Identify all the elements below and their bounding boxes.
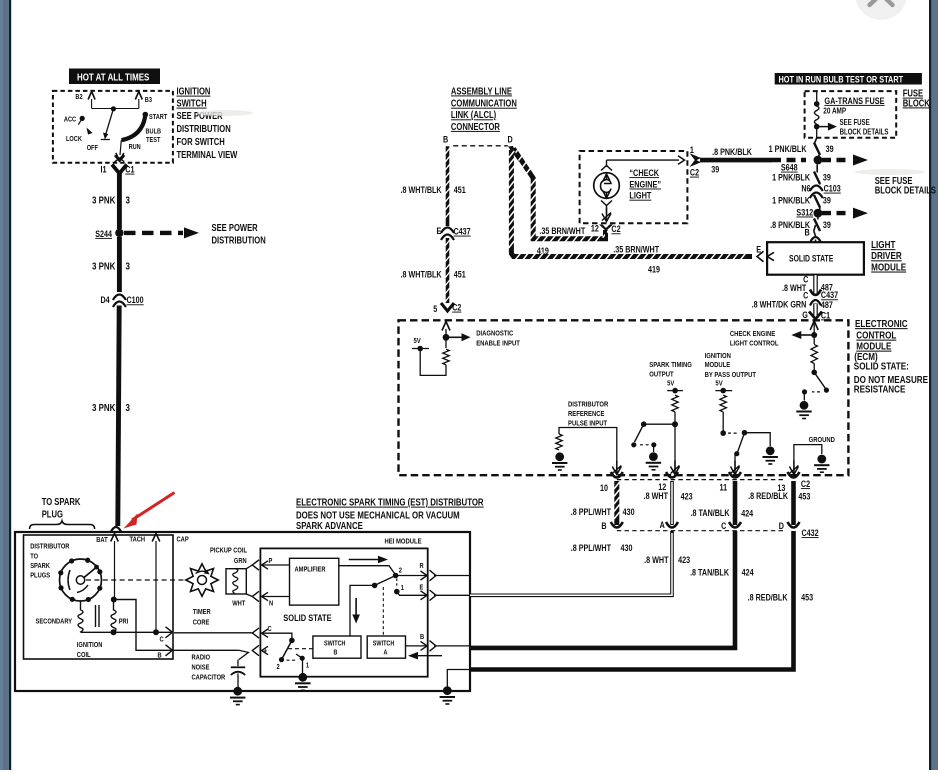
diagnostic enable circuit [442,322,450,331]
ignition coil box [24,535,174,659]
svg-text:BY PASS OUTPUT: BY PASS OUTPUT [705,371,757,379]
svg-text:RADIO: RADIO [192,654,211,662]
splice S244 [115,229,123,237]
svg-text:5V: 5V [667,380,675,388]
node primary top [111,597,117,603]
svg-text:SEE FUSE: SEE FUSE [840,119,870,127]
dashed wire to switch B [288,648,313,650]
svg-text:I1: I1 [101,165,107,175]
pickup coil [226,569,246,594]
svg-text:.8 WHT/DK GRN: .8 WHT/DK GRN [752,300,807,310]
ignition switch box [53,91,173,163]
svg-text:IGNITION: IGNITION [705,352,731,360]
svg-text:D4: D4 [101,295,111,305]
svg-text:1 PNK/BLK: 1 PNK/BLK [772,172,810,182]
svg-text:PLUGS: PLUGS [30,572,50,580]
switch common node [372,583,378,589]
svg-text:PULSE INPUT: PULSE INPUT [568,420,608,428]
header HOT IN RUN BULB TEST OR START [775,73,922,85]
dashed link to switch A [382,587,384,636]
splice S648 [772,158,806,162]
svg-text:MODULE: MODULE [856,341,891,352]
svg-text:B: B [805,227,810,237]
feedback arrow [414,655,442,657]
svg-text:PICKUP COIL: PICKUP COIL [210,547,247,555]
svg-text:C1: C1 [821,310,831,320]
ground radio capacitor [233,687,242,696]
svg-text:C: C [160,636,164,644]
svg-text:3: 3 [126,402,130,413]
see fuse details arrow [817,126,828,128]
svg-text:SWITCH: SWITCH [324,640,346,648]
svg-text:451: 451 [454,185,466,195]
svg-text:ASSEMBLY LINE: ASSEMBLY LINE [451,85,512,96]
see power distribution arrow [124,231,183,235]
smudge artifact [197,110,253,116]
svg-text:39: 39 [711,165,719,175]
svg-text:S312: S312 [796,208,813,218]
svg-text:DISTRIBUTION: DISTRIBUTION [212,235,266,246]
fuse block box [805,91,897,138]
svg-text:ENABLE INPUT: ENABLE INPUT [476,340,520,348]
wire bulb to pin 12 [602,213,611,222]
svg-text:R: R [420,562,424,570]
node primary bottom [111,629,117,635]
HEI module box [260,548,427,676]
svg-text:CHECK ENGINE: CHECK ENGINE [730,330,776,338]
key travel arc [122,115,146,140]
svg-text:SEE POWER: SEE POWER [212,222,259,233]
pickup wire WHT [246,594,252,597]
svg-text:GA-TRANS FUSE: GA-TRANS FUSE [824,95,884,106]
svg-text:1: 1 [401,584,404,592]
svg-text:CONTROL: CONTROL [856,330,896,341]
distributor cap [60,559,102,601]
ground ECM internal [817,455,826,464]
svg-text:DOES NOT USE MECHANICAL OR VAC: DOES NOT USE MECHANICAL OR VACUUM [296,510,460,521]
coil B wire [114,600,171,651]
svg-text:.8 PNK/BLK: .8 PNK/BLK [712,147,752,157]
node tach junction [153,629,159,635]
coil C output wire [81,631,172,633]
svg-text:12: 12 [591,224,599,234]
svg-text:SPARK: SPARK [30,562,50,570]
switch contact 1 lower [300,656,305,661]
svg-text:DISTRIBUTOR: DISTRIBUTOR [30,543,69,551]
wire switch A to B terminal [406,645,428,647]
node ignition feed [111,106,116,111]
wire .8 WHT 423 hollow [470,531,672,595]
svg-text:3 PNK: 3 PNK [92,402,116,413]
svg-text:ACC: ACC [64,116,76,124]
svg-text:DISTRIBUTION: DISTRIBUTION [177,123,231,134]
wire E to WHT [434,594,470,596]
B wire to + terminal [173,649,239,651]
ground spark timing switch [649,452,658,461]
svg-text:GROUND: GROUND [809,436,835,444]
svg-text:LINK (ALCL): LINK (ALCL) [451,109,496,120]
svg-text:B: B [601,521,606,531]
svg-text:RUN: RUN [129,143,141,151]
wire to R terminal [396,575,427,577]
svg-text:39: 39 [826,144,834,154]
wire .8 PNK/BLK 39 [700,158,772,163]
svg-text:N: N [269,600,273,608]
svg-text:B: B [158,652,162,660]
svg-text:TEST: TEST [146,136,160,144]
wire .8 WHT/DK GRN 487 hollow [813,304,818,318]
svg-text:P: P [269,557,273,565]
svg-text:CAP: CAP [177,536,190,544]
svg-text:487: 487 [821,300,833,310]
svg-text:SECONDARY: SECONDARY [36,618,73,626]
svg-text:TIMER: TIMER [193,608,211,616]
svg-text:COIL: COIL [77,651,91,659]
wire .8 WHT/BLK 451 upper hatched [446,146,450,226]
svg-text:S648: S648 [781,163,798,173]
svg-text:SOLID STATE: SOLID STATE [283,612,332,623]
svg-text:TERMINAL VIEW: TERMINAL VIEW [177,149,238,160]
check engine light bulb [594,173,620,199]
svg-text:20 AMP: 20 AMP [823,106,846,116]
wire B to TAN/BLK [434,645,470,647]
svg-text:COMMUNICATION: COMMUNICATION [451,98,517,109]
diagnostic 5V pullup [443,349,449,365]
svg-text:MODULE: MODULE [871,261,906,272]
ground ref pulse [555,452,564,461]
rotor to timer core dashed link [86,579,187,581]
close button [855,0,907,20]
wire 3 PNK upper [117,174,122,230]
svg-text:12: 12 [658,482,666,492]
svg-text:B: B [334,649,338,657]
svg-text:3: 3 [126,261,130,272]
svg-text:LIGHT CONTROL: LIGHT CONTROL [730,340,779,348]
svg-text:SPARK ADVANCE: SPARK ADVANCE [296,520,363,531]
svg-text:CAPACITOR: CAPACITOR [192,674,226,682]
svg-text:SPARK TIMING: SPARK TIMING [649,361,692,369]
svg-text:5V: 5V [414,337,422,345]
svg-text:PLUG: PLUG [42,509,63,520]
svg-text:NOISE: NOISE [192,664,210,672]
svg-text:HEI MODULE: HEI MODULE [385,538,423,546]
svg-text:BULB: BULB [146,128,162,136]
svg-text:.8 PPL/WHT: .8 PPL/WHT [571,507,611,517]
svg-text:.8 TAN/BLK: .8 TAN/BLK [690,567,729,577]
run output wire [120,140,121,155]
pickup wire GRN [246,565,252,569]
wire .8 WHT/BLK 451 lower hatched [446,238,450,303]
ground bypass switch [766,446,775,455]
svg-text:453: 453 [801,593,813,603]
svg-text:424: 424 [741,509,753,519]
svg-text:D: D [779,521,784,531]
wire D to light driver hatched [511,150,752,257]
wire R to PPL/WHT [434,575,470,577]
svg-text:ELECTRONIC SPARK TIMING (EST): ELECTRONIC SPARK TIMING (EST) DISTRIBUTO… [296,497,484,508]
svg-text:OFF: OFF [87,144,98,152]
wire 424 C2-C432 thick [733,481,738,525]
svg-text:1 PNK/BLK: 1 PNK/BLK [769,144,807,154]
svg-text:TO SPARK: TO SPARK [42,496,81,507]
wire 423 C2-C432 hollow [670,481,674,525]
svg-text:TO: TO [30,553,38,561]
connector C437 pin C [810,290,821,296]
svg-text:DIAGNOSTIC: DIAGNOSTIC [476,330,513,338]
spark timing switch [644,423,675,425]
svg-text:C1: C1 [125,165,135,175]
switch contact 2 (R) [393,573,399,579]
svg-text:419: 419 [648,265,660,275]
svg-text:2: 2 [277,663,280,671]
svg-text:BLOCK: BLOCK [903,97,931,108]
svg-text:ENGINE”: ENGINE” [629,178,661,189]
switch arm C [282,640,292,659]
svg-text:39: 39 [823,220,831,230]
svg-text:G: G [802,310,808,320]
svg-text:E: E [420,584,424,592]
wire bulb to pin 1 [607,159,680,161]
light driver module U2 [767,242,864,275]
page side borders [0,0,9,770]
svg-text:430: 430 [621,543,633,553]
svg-text:C437: C437 [454,227,472,237]
svg-text:IGNITION: IGNITION [77,641,103,649]
svg-text:424: 424 [742,567,754,577]
wire .8 TAN/BLK 424 thick [470,531,735,648]
svg-text:.8 WHT/BLK: .8 WHT/BLK [401,270,442,280]
svg-text:1: 1 [306,662,309,670]
timer core [186,564,218,596]
svg-text:BLOCK DETAILS: BLOCK DETAILS [840,129,889,137]
wire 453 C2-C432 thick [791,481,796,525]
svg-text:B: B [443,134,448,144]
svg-text:3: 3 [126,195,130,206]
svg-text:“CHECK: “CHECK [629,167,659,178]
wire contact1 to ground [302,658,304,677]
coil core [95,605,97,627]
svg-text:10: 10 [600,483,608,493]
svg-text:2: 2 [399,567,402,575]
svg-text:.8 WHT: .8 WHT [644,555,668,565]
ground check engine switch [800,401,809,410]
BAT feed connector arc [111,527,122,533]
wire .8 WHT 487 hollow [813,275,818,294]
svg-text:OUTPUT: OUTPUT [649,371,674,379]
svg-text:SOLID STATE:: SOLID STATE: [854,361,909,372]
svg-text:C100: C100 [127,295,145,305]
svg-text:SWITCH: SWITCH [373,640,395,648]
svg-text:C437: C437 [821,290,839,300]
distributor assembly box [15,532,470,691]
svg-text:39: 39 [823,172,831,182]
svg-text:11: 11 [720,483,728,493]
ALCL B-D dashed link [453,145,508,147]
svg-text:CONNECTOR: CONNECTOR [451,121,501,132]
electronic control module box [399,320,849,475]
svg-text:13: 13 [777,483,785,493]
wire B2-B3 bus [92,108,139,110]
svg-text:MODULE: MODULE [705,362,731,370]
svg-text:C103: C103 [824,184,842,194]
amplifier U1 [290,558,339,605]
primary winding [111,600,116,633]
drive arrow [355,598,357,617]
switch A box [367,636,405,658]
svg-text:.8 WHT/BLK: .8 WHT/BLK [401,185,442,195]
switch node C [289,638,295,644]
svg-text:BAT: BAT [96,536,107,544]
wire to E terminal [397,592,427,596]
wire .8 RED/BLK 453 thick [470,531,794,670]
svg-text:LOCK: LOCK [66,135,82,143]
svg-text:.8 WHT: .8 WHT [644,491,668,501]
ground HEI module [298,673,307,682]
svg-text:REFERENCE: REFERENCE [568,410,605,418]
svg-text:3 PNK: 3 PNK [92,195,116,206]
wire 430 C2-C432 hatched [614,481,619,525]
svg-text:PRI: PRI [119,618,129,626]
svg-text:430: 430 [623,507,635,517]
svg-text:.8 TAN/BLK: .8 TAN/BLK [691,508,730,518]
svg-text:DISTRIBUTOR: DISTRIBUTOR [568,401,608,409]
svg-text:5V: 5V [715,380,723,388]
header HOT AT ALL TIMES [69,69,160,85]
svg-text:IGNITION: IGNITION [177,86,211,97]
svg-text:39: 39 [823,196,831,206]
svg-text:HOT AT ALL TIMES: HOT AT ALL TIMES [77,72,149,83]
svg-text:1 PNK/BLK: 1 PNK/BLK [772,196,810,206]
svg-text:RESISTANCE: RESISTANCE [854,383,906,394]
svg-text:C2: C2 [801,479,811,489]
svg-text:DRIVER: DRIVER [871,250,902,261]
svg-text:SWITCH: SWITCH [177,98,207,109]
svg-text:CORE: CORE [193,619,210,627]
light driver input wire B [814,225,816,231]
ground distributor case [443,686,452,695]
svg-text:FOR SWITCH: FOR SWITCH [177,136,225,147]
amplifier output wire [339,566,395,574]
svg-text:B: B [420,633,424,641]
svg-text:.8 PPL/WHT: .8 PPL/WHT [571,543,611,553]
svg-text:B3: B3 [145,97,153,105]
connector C2 ecm [617,479,784,481]
switch contact 1 (E) [394,589,400,595]
check engine light box [580,151,688,223]
svg-text:.35 BRN/WHT: .35 BRN/WHT [539,226,585,236]
svg-text:.8 RED/BLK: .8 RED/BLK [748,593,788,603]
svg-text:.35 BRN/WHT: .35 BRN/WHT [613,245,659,255]
svg-text:A: A [660,520,665,530]
svg-text:423: 423 [681,492,693,502]
svg-text:C432: C432 [802,528,820,538]
svg-text:C: C [803,275,808,285]
svg-text:N6: N6 [801,184,811,194]
wire 3 PNK middle [117,237,122,292]
svg-text:S244: S244 [95,229,112,239]
switch wiper [105,109,113,136]
svg-text:C2: C2 [452,303,462,313]
svg-text:451: 451 [454,270,466,280]
svg-text:SOLID STATE: SOLID STATE [789,254,833,264]
secondary winding [78,601,83,632]
switch B box [313,636,361,658]
svg-text:ELECTRONIC: ELECTRONIC [855,318,908,329]
wire .8 PPL/WHT 430 hatched [470,531,613,576]
svg-text:WHT: WHT [232,600,245,608]
svg-text:5: 5 [433,304,437,314]
svg-text:C: C [721,521,726,531]
svg-text:A: A [384,649,388,657]
svg-text:C2: C2 [690,168,700,178]
signal flow arrow [349,559,381,561]
svg-text:423: 423 [678,555,690,565]
svg-text:START: START [149,113,167,121]
red annotation arrow [124,514,138,529]
svg-text:GRN: GRN [234,557,247,565]
svg-text:HOT IN RUN BULB TEST OR START: HOT IN RUN BULB TEST OR START [779,73,904,84]
svg-text:C2: C2 [611,224,621,234]
svg-text:AMPLIFIER: AMPLIFIER [295,566,326,574]
svg-text:E: E [437,226,442,236]
wire D to check engine hatched [513,149,605,239]
svg-text:453: 453 [798,492,810,502]
wire 3 PNK lower [118,306,119,527]
connector C432 [617,530,784,532]
distributor ground wire [447,670,470,692]
capacitor C1 radio noise [237,660,239,666]
svg-text:BLOCK DETAILS: BLOCK DETAILS [875,185,936,196]
svg-text:3 PNK: 3 PNK [92,261,116,272]
svg-text:LIGHT: LIGHT [629,190,652,201]
svg-text:TACH: TACH [130,536,146,544]
svg-text:LIGHT: LIGHT [871,239,896,250]
wire common to switch B [350,585,375,636]
svg-text:B2: B2 [75,94,83,102]
svg-text:D: D [508,134,513,144]
connector C1 pin I1 [115,155,125,162]
GA-TRANS fuse [816,91,818,104]
